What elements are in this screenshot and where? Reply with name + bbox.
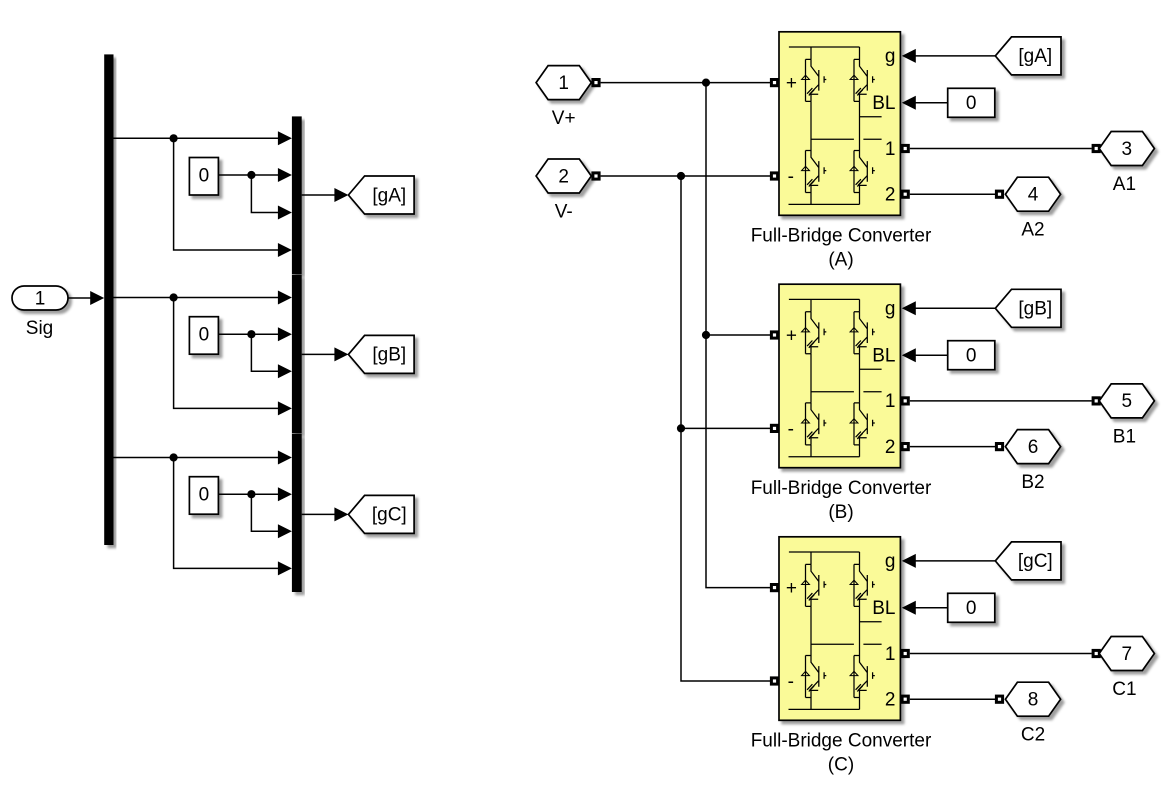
junction on constant B output: [247, 330, 255, 338]
wire constant A to mux A in2: [218, 168, 292, 182]
full-bridge converter (C): [751, 537, 932, 776]
wire net V- to converter - inputs: [601, 176, 770, 681]
wire demux out2 to mux B in1: [114, 291, 292, 305]
svg-text:V-: V-: [555, 202, 573, 223]
mux B: [292, 275, 302, 434]
mux A: [292, 116, 302, 274]
junction on demux out2: [170, 293, 178, 301]
constant 0 (BL C): [948, 593, 995, 622]
wire branch to mux C in4: [174, 458, 292, 576]
svg-text:B1: B1: [1113, 426, 1136, 447]
svg-text:0: 0: [966, 93, 977, 114]
from tag gA: [995, 37, 1061, 75]
svg-text:5: 5: [1122, 391, 1133, 412]
svg-text:3: 3: [1122, 139, 1133, 160]
port connector - of converter C: [770, 676, 779, 685]
svg-text:A1: A1: [1113, 174, 1136, 195]
port connector + of converter C: [770, 583, 779, 592]
port connector - of converter B: [770, 424, 779, 433]
outport 6 B2: [1005, 430, 1060, 494]
junction on demux out1: [170, 134, 178, 142]
wire converter A out1 to outport 3: [910, 144, 1101, 153]
port connector out1 of converter B: [901, 396, 910, 405]
svg-text:[gC]: [gC]: [1018, 551, 1053, 572]
wire branch to mux A in4: [174, 138, 292, 257]
goto tag gA: [348, 176, 414, 214]
svg-text:6: 6: [1028, 437, 1039, 458]
wire branch to mux B in3: [251, 334, 292, 378]
junction on constant C output: [247, 490, 255, 498]
svg-text:1: 1: [35, 288, 46, 309]
port connector + of converter A: [770, 78, 779, 87]
svg-text:[gA]: [gA]: [372, 185, 406, 206]
inport 2 V-: [536, 159, 601, 223]
svg-text:2: 2: [558, 166, 569, 187]
svg-text:Full-Bridge Converter: Full-Bridge Converter: [751, 226, 932, 247]
wire mux C to goto gC: [302, 507, 349, 521]
svg-text:A2: A2: [1021, 220, 1044, 241]
junction V+ at converter A: [702, 79, 710, 87]
svg-text:0: 0: [199, 165, 210, 186]
svg-text:C1: C1: [1112, 679, 1136, 700]
inport 1 V+: [536, 66, 601, 130]
junction on constant A output: [247, 171, 255, 179]
wire branch to mux A in3: [251, 175, 292, 220]
wire mux A to goto gA: [302, 188, 349, 202]
inport 1 Sig: [12, 286, 68, 310]
wire branch to mux B in4: [174, 298, 292, 416]
constant 0 (BL A): [948, 88, 995, 117]
outport 3 A1: [1099, 132, 1154, 196]
outport 8 C2: [1005, 682, 1060, 746]
wire from gB to g port of converter B: [902, 301, 996, 315]
full-bridge converter (B): [751, 284, 932, 523]
wire converter B out1 to outport 5: [910, 396, 1101, 405]
junction V- at converter A: [677, 172, 685, 180]
wire converter C out2 to outport 8: [910, 695, 1004, 704]
port connector out1 of converter A: [901, 144, 910, 153]
svg-text:1: 1: [558, 73, 569, 94]
port connector + of converter B: [770, 330, 779, 339]
mux C: [292, 434, 302, 592]
wire demux out1 to mux A in1: [114, 131, 292, 145]
from tag gC: [995, 542, 1061, 580]
svg-text:7: 7: [1122, 644, 1133, 665]
constant 0 (group A): [189, 158, 218, 196]
svg-text:C2: C2: [1021, 725, 1045, 746]
svg-text:(A): (A): [828, 250, 853, 271]
outport 5 B1: [1099, 384, 1154, 448]
wire demux out3 to mux C in1: [114, 451, 292, 465]
svg-text:Full-Bridge Converter: Full-Bridge Converter: [751, 731, 932, 752]
port connector out1 of converter C: [901, 649, 910, 658]
wire converter A out2 to outport 4: [910, 190, 1004, 199]
demux: [104, 54, 113, 545]
svg-text:Full-Bridge Converter: Full-Bridge Converter: [751, 478, 932, 499]
svg-text:V+: V+: [552, 108, 576, 129]
svg-text:0: 0: [966, 598, 977, 619]
port connector out2 of converter A: [901, 190, 910, 199]
port connector out2 of converter B: [901, 442, 910, 451]
svg-text:(C): (C): [828, 755, 854, 776]
junction on demux out3: [170, 453, 178, 461]
wire net V+ to converter + inputs: [601, 83, 770, 588]
svg-text:0: 0: [199, 325, 210, 346]
wire from gA to g port of converter A: [902, 49, 996, 63]
wire constant B to mux B in2: [218, 327, 292, 341]
svg-text:0: 0: [199, 485, 210, 506]
wire constant 0 to BL port of converter A: [902, 96, 948, 110]
constant 0 (BL B): [948, 341, 995, 370]
wire converter C out1 to outport 7: [910, 649, 1101, 658]
svg-text:[gC]: [gC]: [372, 505, 407, 526]
constant 0 (group C): [189, 477, 218, 515]
goto tag gB: [348, 335, 414, 373]
svg-text:(B): (B): [828, 502, 853, 523]
svg-text:8: 8: [1028, 690, 1039, 711]
wire constant 0 to BL port of converter B: [902, 348, 948, 362]
from tag gB: [995, 289, 1061, 327]
wire branch to mux C in3: [251, 494, 292, 538]
full-bridge converter (A): [751, 32, 932, 271]
wire Sig to demux: [68, 297, 91, 299]
svg-text:Sig: Sig: [26, 318, 53, 339]
outport 4 A2: [1005, 177, 1060, 241]
svg-text:[gB]: [gB]: [1018, 299, 1052, 320]
port connector out2 of converter C: [901, 695, 910, 704]
svg-text:B2: B2: [1021, 472, 1044, 493]
junction V- at converter B: [677, 424, 685, 432]
constant 0 (group B): [189, 317, 218, 355]
goto tag gC: [348, 495, 414, 533]
wire from gC to g port of converter C: [902, 554, 996, 568]
svg-text:4: 4: [1028, 185, 1039, 206]
outport 7 C1: [1099, 637, 1154, 701]
wire constant 0 to BL port of converter C: [902, 601, 948, 615]
junction V+ at converter B: [702, 331, 710, 339]
svg-text:0: 0: [966, 346, 977, 367]
wire converter B out2 to outport 6: [910, 442, 1004, 451]
svg-text:[gA]: [gA]: [1018, 46, 1052, 67]
wire constant C to mux C in2: [218, 487, 292, 501]
wire mux B to goto gB: [302, 347, 349, 361]
port connector - of converter A: [770, 171, 779, 180]
svg-text:[gB]: [gB]: [372, 345, 406, 366]
